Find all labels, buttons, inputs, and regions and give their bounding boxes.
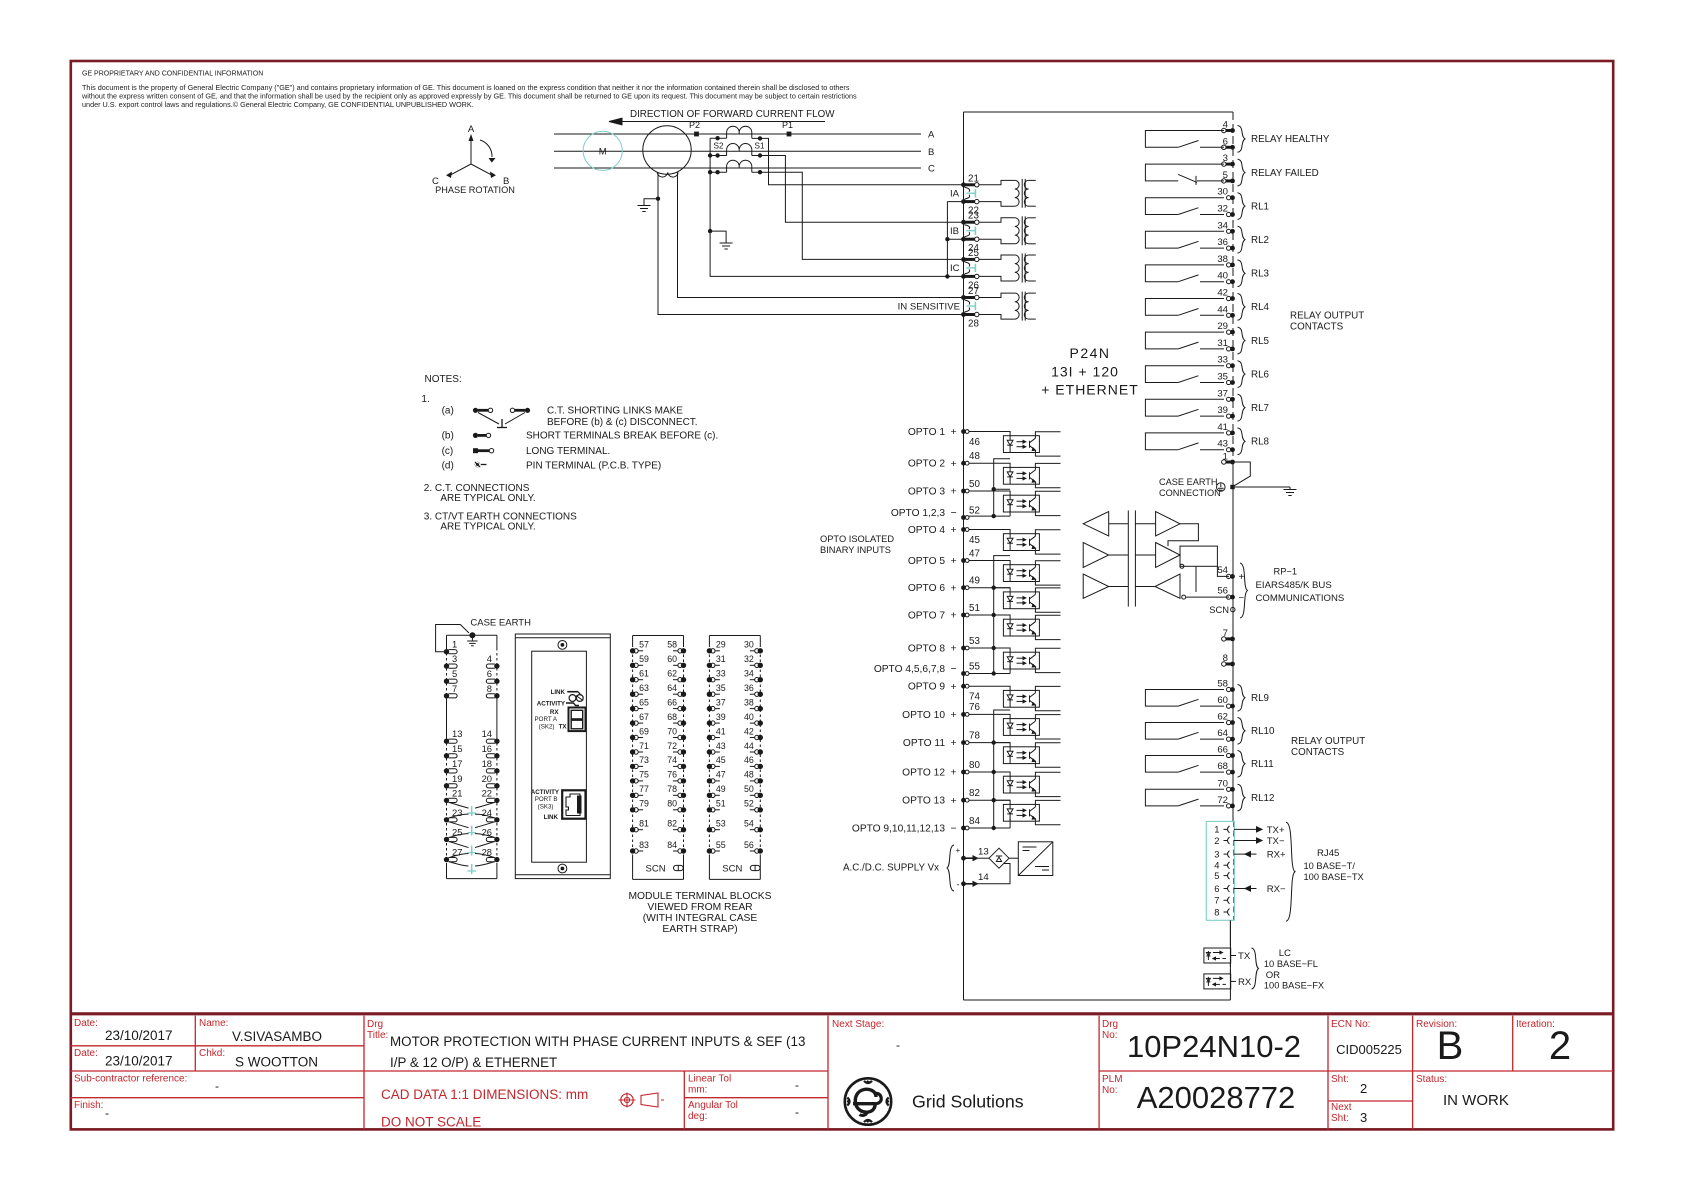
power supply unit (dc/dc) bbox=[1009, 857, 1018, 859]
svg-text:54: 54 bbox=[1217, 565, 1228, 576]
svg-text:3: 3 bbox=[1214, 848, 1219, 859]
svg-text:RL7: RL7 bbox=[1251, 403, 1269, 414]
wire opto group2 cathode bus to terminal 55 bbox=[994, 556, 1010, 674]
svg-text:2: 2 bbox=[1214, 835, 1219, 846]
svg-text:66: 66 bbox=[1217, 745, 1228, 756]
svg-text:Date:: Date: bbox=[74, 1048, 98, 1059]
RS485 driver logic box bbox=[1180, 546, 1217, 566]
svg-text:56: 56 bbox=[744, 840, 754, 850]
strip terminal 33 bbox=[707, 677, 712, 682]
svg-text:35: 35 bbox=[716, 683, 726, 693]
svg-text:5: 5 bbox=[1223, 170, 1228, 181]
terminal strip B outline bbox=[709, 635, 760, 637]
terminal 82 bbox=[961, 798, 966, 803]
CT phase C bbox=[727, 160, 752, 166]
block terminal 28 bbox=[494, 857, 499, 862]
svg-text:OPTO 8: OPTO 8 bbox=[908, 643, 946, 654]
terminal 78 bbox=[961, 740, 966, 745]
wire supply + to bridge bbox=[978, 857, 990, 859]
screw bottom bbox=[558, 864, 567, 873]
block terminal 14 bbox=[494, 739, 499, 744]
svg-text:62: 62 bbox=[1217, 712, 1228, 723]
svg-text:75: 75 bbox=[639, 770, 649, 780]
svg-text:49: 49 bbox=[969, 576, 980, 587]
svg-text:I/P & 12 O/P) & ETHERNET: I/P & 12 O/P) & ETHERNET bbox=[390, 1055, 557, 1070]
relay contact RELAY HEALTHY bbox=[1145, 131, 1224, 148]
svg-text:55: 55 bbox=[969, 661, 980, 672]
relay contact RL8 bbox=[1145, 433, 1224, 450]
svg-text:20: 20 bbox=[482, 773, 492, 784]
title block top heavy line bbox=[70, 1012, 1615, 1015]
svg-text:21: 21 bbox=[968, 173, 979, 184]
svg-text:CID005225: CID005225 bbox=[1336, 1042, 1402, 1057]
svg-text:TX+: TX+ bbox=[1267, 825, 1285, 836]
svg-text:8: 8 bbox=[1223, 653, 1228, 664]
svg-text:Linear Tol: Linear Tol bbox=[688, 1074, 731, 1085]
optocoupler U8 (OPTO input 53) bbox=[1003, 652, 1039, 669]
svg-text:84: 84 bbox=[969, 816, 980, 827]
block terminal 21 bbox=[444, 798, 449, 803]
terminal 43 bbox=[1227, 448, 1231, 452]
wire CT S2 common bus bbox=[710, 138, 947, 276]
LC brace bbox=[1252, 948, 1259, 989]
terminal 40 bbox=[1227, 280, 1231, 284]
internal CT IC bbox=[979, 255, 1015, 259]
svg-text:+: + bbox=[951, 486, 957, 498]
svg-text:No:: No: bbox=[1102, 1030, 1118, 1041]
dashed link TX-RX bbox=[1229, 963, 1231, 974]
svg-text:(SK3): (SK3) bbox=[538, 804, 554, 811]
wire phase C S1 to terminal 25 bbox=[752, 172, 964, 259]
strip terminal 40 bbox=[758, 720, 763, 725]
svg-text:16: 16 bbox=[482, 743, 492, 754]
svg-text:Angular Tol: Angular Tol bbox=[688, 1100, 738, 1111]
svg-text:81: 81 bbox=[639, 819, 649, 829]
wire to terminal 54 bbox=[1217, 566, 1229, 576]
svg-text:42: 42 bbox=[744, 726, 754, 736]
svg-text:23/10/2017: 23/10/2017 bbox=[105, 1028, 173, 1043]
terminal 4 bbox=[1222, 128, 1226, 132]
svg-text:V.SIVASAMBO: V.SIVASAMBO bbox=[232, 1029, 322, 1044]
relay case top edge bbox=[964, 111, 1234, 113]
strip terminal 53 bbox=[707, 827, 712, 832]
block terminal 25 bbox=[444, 837, 449, 842]
svg-text:OPTO 1: OPTO 1 bbox=[908, 427, 946, 438]
CT shorting link IN bbox=[965, 300, 970, 305]
terminal 58 bbox=[1227, 687, 1231, 691]
svg-text:OPTO ISOLATED: OPTO ISOLATED bbox=[820, 534, 894, 544]
svg-text:61: 61 bbox=[639, 669, 649, 679]
svg-text:OPTO 11: OPTO 11 bbox=[903, 738, 945, 749]
svg-text:(c): (c) bbox=[442, 446, 454, 457]
svg-text:83: 83 bbox=[639, 840, 649, 850]
svg-text:Finish:: Finish: bbox=[74, 1100, 103, 1111]
strip terminal 42 bbox=[758, 735, 763, 740]
terminal 49 bbox=[961, 585, 966, 590]
svg-text:82: 82 bbox=[969, 788, 980, 799]
terminal 54 bbox=[1227, 574, 1231, 578]
svg-text:77: 77 bbox=[639, 784, 649, 794]
svg-text:Chkd:: Chkd: bbox=[199, 1048, 225, 1059]
strip terminal 44 bbox=[758, 749, 763, 754]
svg-text:A: A bbox=[468, 124, 475, 135]
svg-text:CONNECTION: CONNECTION bbox=[1159, 488, 1221, 498]
svg-text:-: - bbox=[795, 1078, 799, 1092]
svg-text:74: 74 bbox=[969, 692, 980, 703]
svg-text:BEFORE (b) & (c) DISCONNECT.: BEFORE (b) & (c) DISCONNECT. bbox=[547, 417, 698, 428]
direction arrow bbox=[609, 121, 825, 123]
svg-text:LINK: LINK bbox=[551, 689, 566, 696]
core-balance CT (toroid) bbox=[643, 126, 691, 174]
svg-text:56: 56 bbox=[1217, 586, 1228, 597]
terminal 51 bbox=[961, 613, 966, 618]
supply brace bbox=[947, 845, 954, 891]
strip terminal 37 bbox=[707, 706, 712, 711]
svg-text:−: − bbox=[951, 663, 957, 675]
strip terminal 69 bbox=[630, 735, 635, 740]
svg-text:B: B bbox=[1437, 1024, 1464, 1068]
svg-text:LONG TERMINAL.: LONG TERMINAL. bbox=[526, 446, 610, 457]
svg-text:36: 36 bbox=[1217, 237, 1228, 248]
block terminal 16 bbox=[494, 753, 499, 758]
strip terminal 71 bbox=[630, 749, 635, 754]
strip terminal 59 bbox=[630, 663, 635, 668]
wire to terminal 22 bbox=[947, 201, 963, 203]
wire phase B bbox=[554, 150, 921, 152]
svg-text:TX: TX bbox=[1238, 951, 1251, 962]
terminal 37 bbox=[1227, 397, 1231, 401]
svg-text:OPTO 4,5,6,7,8: OPTO 4,5,6,7,8 bbox=[874, 664, 945, 675]
svg-text:66: 66 bbox=[667, 697, 677, 707]
svg-text:52: 52 bbox=[744, 799, 754, 809]
svg-text:+: + bbox=[951, 524, 957, 536]
svg-text:deg:: deg: bbox=[688, 1111, 707, 1122]
svg-text:VIEWED FROM REAR: VIEWED FROM REAR bbox=[647, 902, 752, 913]
svg-text:100 BASE−TX: 100 BASE−TX bbox=[1304, 872, 1364, 882]
CT phase A bbox=[727, 126, 752, 132]
terminal 56 bbox=[1227, 595, 1231, 599]
svg-text:6: 6 bbox=[1223, 136, 1228, 147]
optocoupler U10 (OPTO input 76) bbox=[1003, 719, 1039, 736]
strip terminal 51 bbox=[707, 807, 712, 812]
strip terminal 43 bbox=[707, 749, 712, 754]
svg-text:32: 32 bbox=[744, 654, 754, 664]
svg-text:50: 50 bbox=[744, 784, 754, 794]
terminal 68 bbox=[1227, 770, 1231, 774]
case earth stud + ground bbox=[469, 632, 475, 638]
svg-text:Name:: Name: bbox=[199, 1018, 228, 1029]
RJ45 connector outline (teal) bbox=[1206, 821, 1234, 920]
svg-text:73: 73 bbox=[639, 755, 649, 765]
svg-text:27: 27 bbox=[968, 286, 979, 297]
svg-text:37: 37 bbox=[1217, 388, 1228, 399]
svg-text:22: 22 bbox=[482, 787, 492, 798]
svg-text:RX+: RX+ bbox=[1267, 850, 1286, 861]
wire opto group1 cathode bus to terminal 52 bbox=[994, 459, 1010, 516]
svg-text:15: 15 bbox=[452, 743, 462, 754]
wire phase B S1 to terminal 23 bbox=[752, 156, 964, 223]
terminal 24 bbox=[961, 237, 966, 242]
svg-text:BINARY INPUTS: BINARY INPUTS bbox=[820, 545, 891, 555]
terminal P1 bbox=[787, 132, 792, 137]
svg-text:63: 63 bbox=[639, 683, 649, 693]
optocoupler U1 (OPTO input 46) bbox=[1003, 436, 1039, 453]
svg-text:+: + bbox=[951, 555, 957, 567]
svg-text:IN WORK: IN WORK bbox=[1443, 1092, 1509, 1109]
svg-text:55: 55 bbox=[716, 840, 726, 850]
svg-text:13: 13 bbox=[978, 847, 989, 858]
svg-text:36: 36 bbox=[744, 683, 754, 693]
svg-text:3: 3 bbox=[452, 653, 457, 664]
internal CT IA bbox=[979, 180, 1015, 184]
svg-text:PORT B: PORT B bbox=[535, 796, 558, 803]
svg-text:82: 82 bbox=[667, 819, 677, 829]
svg-text:45: 45 bbox=[969, 535, 980, 546]
svg-text:Title:: Title: bbox=[367, 1030, 388, 1041]
svg-text:RX: RX bbox=[1238, 977, 1252, 988]
svg-text:GE PROPRIETARY AND CONFIDENTIA: GE PROPRIETARY AND CONFIDENTIAL INFORMAT… bbox=[82, 71, 263, 78]
relay contact RL6 bbox=[1145, 366, 1224, 383]
svg-text:RELAY OUTPUT: RELAY OUTPUT bbox=[1290, 311, 1364, 322]
svg-text:S2: S2 bbox=[714, 142, 724, 151]
wire phase C bbox=[554, 167, 921, 169]
svg-text:8: 8 bbox=[487, 683, 492, 694]
svg-text:23: 23 bbox=[968, 211, 979, 222]
svg-text:39: 39 bbox=[716, 712, 726, 722]
svg-text:A.C./D.C. SUPPLY Vx: A.C./D.C. SUPPLY Vx bbox=[843, 863, 939, 874]
RJ45 signal RX+ bbox=[1234, 853, 1257, 855]
svg-text:39: 39 bbox=[1217, 405, 1228, 416]
svg-text:ARE TYPICAL ONLY.: ARE TYPICAL ONLY. bbox=[440, 522, 535, 533]
svg-text:No:: No: bbox=[1102, 1085, 1118, 1096]
svg-text:MOTOR PROTECTION WITH PHASE CU: MOTOR PROTECTION WITH PHASE CURRENT INPU… bbox=[390, 1034, 805, 1049]
svg-text:31: 31 bbox=[716, 654, 726, 664]
svg-text:44: 44 bbox=[744, 741, 754, 751]
svg-text:+: + bbox=[1239, 572, 1245, 583]
svg-text:+: + bbox=[951, 643, 957, 655]
CT shorting link IA bbox=[965, 187, 970, 191]
strip terminal 83 bbox=[630, 848, 635, 853]
svg-text:RL1: RL1 bbox=[1251, 201, 1269, 212]
svg-text:23/10/2017: 23/10/2017 bbox=[105, 1054, 173, 1069]
terminal 84 bbox=[961, 826, 966, 831]
ground G3 (case earth) bbox=[1289, 487, 1291, 490]
terminal 66 bbox=[1227, 753, 1231, 757]
svg-text:78: 78 bbox=[969, 730, 980, 741]
wire toroid secondary left to terminal 28 bbox=[658, 173, 964, 315]
block terminal 13 bbox=[444, 739, 449, 744]
svg-text:ACTIVITY: ACTIVITY bbox=[531, 789, 560, 796]
svg-text:6: 6 bbox=[487, 668, 492, 679]
strip terminal 62 bbox=[681, 677, 686, 682]
terminal 46 bbox=[961, 429, 966, 434]
svg-text:Next: Next bbox=[1331, 1102, 1352, 1113]
block terminal 6 bbox=[494, 679, 499, 684]
svg-text:5: 5 bbox=[452, 668, 457, 679]
svg-text:37: 37 bbox=[716, 697, 726, 707]
terminal 26 bbox=[961, 274, 966, 279]
strip terminal 65 bbox=[630, 706, 635, 711]
strip terminal 58 bbox=[681, 648, 686, 653]
svg-text:RX−: RX− bbox=[1267, 884, 1286, 895]
svg-text:A: A bbox=[928, 130, 935, 141]
ground G1 (toroid earth) bbox=[656, 197, 660, 201]
svg-text:34: 34 bbox=[1217, 220, 1228, 231]
svg-text:6: 6 bbox=[1214, 883, 1219, 894]
optocoupler U2 (OPTO input 48) bbox=[1003, 467, 1039, 484]
svg-text:76: 76 bbox=[969, 702, 980, 713]
screw top bbox=[558, 641, 567, 650]
strip terminal 57 bbox=[630, 648, 635, 653]
svg-text:+: + bbox=[951, 458, 957, 470]
svg-text:+: + bbox=[951, 767, 957, 779]
svg-text:-: - bbox=[896, 1038, 900, 1052]
terminal 38 bbox=[1227, 263, 1231, 267]
terminal 45 bbox=[961, 527, 966, 532]
svg-text:COMMUNICATIONS: COMMUNICATIONS bbox=[1256, 593, 1345, 604]
strip terminal 32 bbox=[758, 663, 763, 668]
terminal 50 bbox=[961, 489, 966, 494]
svg-text:CONTACTS: CONTACTS bbox=[1291, 747, 1345, 758]
svg-text:18: 18 bbox=[482, 758, 492, 769]
svg-text:53: 53 bbox=[716, 819, 726, 829]
block CT shorting links bbox=[471, 806, 473, 816]
svg-text:3: 3 bbox=[1360, 1110, 1367, 1125]
svg-text:72: 72 bbox=[667, 741, 677, 751]
svg-text:60: 60 bbox=[667, 654, 677, 664]
case earth connection symbol bbox=[1217, 483, 1226, 492]
svg-text:LC: LC bbox=[1279, 948, 1291, 959]
svg-text:(WITH INTEGRAL CASE: (WITH INTEGRAL CASE bbox=[643, 913, 758, 924]
strip terminal 72 bbox=[681, 749, 686, 754]
block terminal 5 bbox=[444, 679, 449, 684]
svg-text:MODULE TERMINAL BLOCKS: MODULE TERMINAL BLOCKS bbox=[628, 891, 771, 902]
internal CT IB bbox=[979, 218, 1015, 222]
svg-text:CAD DATA 1:1 DIMENSIONS: mm: CAD DATA 1:1 DIMENSIONS: mm bbox=[381, 1087, 588, 1102]
relay contact RL11 bbox=[1145, 756, 1224, 773]
strip terminal 41 bbox=[707, 735, 712, 740]
rotation direction arc bbox=[480, 140, 492, 157]
svg-text:7: 7 bbox=[452, 683, 457, 694]
svg-text:3: 3 bbox=[1223, 153, 1228, 164]
RJ45 brace bbox=[1286, 822, 1295, 921]
svg-text:EIARS485/K BUS: EIARS485/K BUS bbox=[1256, 580, 1332, 591]
svg-text:OPTO 13: OPTO 13 bbox=[902, 796, 945, 807]
RS485 driver buffer left 2 bbox=[1083, 543, 1109, 568]
optocoupler U6 (OPTO input 49) bbox=[1003, 592, 1039, 609]
wire to terminal 56 bbox=[1182, 595, 1186, 599]
svg-text:SCN: SCN bbox=[722, 864, 742, 875]
svg-text:79: 79 bbox=[639, 799, 649, 809]
svg-text:OPTO 6: OPTO 6 bbox=[908, 583, 946, 594]
svg-text:CASE EARTH: CASE EARTH bbox=[470, 618, 531, 629]
terminal 53 bbox=[961, 646, 966, 651]
svg-text:76: 76 bbox=[667, 770, 677, 780]
terminal 72 bbox=[1227, 804, 1231, 808]
block terminal 24 bbox=[494, 817, 499, 822]
comms module inner plate bbox=[532, 651, 587, 862]
optocoupler U7 (OPTO input 51) bbox=[1003, 619, 1039, 636]
svg-text:PHASE ROTATION: PHASE ROTATION bbox=[435, 185, 515, 195]
terminal 25 bbox=[961, 257, 966, 262]
svg-text:Sht:: Sht: bbox=[1331, 1113, 1349, 1124]
block terminal 26 bbox=[494, 837, 499, 842]
terminal 80 bbox=[961, 770, 966, 775]
svg-text:RL12: RL12 bbox=[1251, 793, 1274, 804]
terminal 42 bbox=[1227, 296, 1231, 300]
relay contact RL7 bbox=[1145, 399, 1224, 416]
terminal 31 bbox=[1227, 347, 1231, 351]
relay contact RL10 bbox=[1145, 723, 1224, 740]
svg-text:33: 33 bbox=[716, 669, 726, 679]
terminal 48 bbox=[961, 461, 966, 466]
strip terminal 63 bbox=[630, 692, 635, 697]
svg-text:69: 69 bbox=[639, 726, 649, 736]
svg-text:EARTH STRAP): EARTH STRAP) bbox=[662, 924, 737, 935]
svg-text:C: C bbox=[928, 164, 935, 175]
svg-text:60: 60 bbox=[1217, 695, 1228, 706]
svg-text:Date:: Date: bbox=[74, 1018, 98, 1029]
svg-text:+: + bbox=[956, 846, 961, 855]
strip terminal 82 bbox=[681, 827, 686, 832]
terminal 6 bbox=[1222, 145, 1226, 149]
svg-text:40: 40 bbox=[1217, 271, 1228, 282]
strip terminal 50 bbox=[758, 793, 763, 798]
svg-text:46: 46 bbox=[744, 755, 754, 765]
svg-text:4: 4 bbox=[487, 653, 492, 664]
block terminal 4 bbox=[494, 663, 499, 668]
strip terminal 39 bbox=[707, 720, 712, 725]
svg-text:SHORT TERMINALS BREAK BEFORE (: SHORT TERMINALS BREAK BEFORE (c). bbox=[526, 431, 718, 442]
svg-text:Sub-contractor reference:: Sub-contractor reference: bbox=[74, 1074, 187, 1085]
svg-text:B: B bbox=[928, 147, 934, 158]
svg-text:RL11: RL11 bbox=[1251, 759, 1274, 770]
svg-text:68: 68 bbox=[667, 712, 677, 722]
svg-text:(d): (d) bbox=[442, 461, 454, 472]
svg-text:45: 45 bbox=[716, 755, 726, 765]
terminal 74 bbox=[961, 684, 966, 689]
svg-text:Next Stage:: Next Stage: bbox=[832, 1019, 884, 1030]
svg-text:13: 13 bbox=[452, 728, 462, 739]
block terminal 15 bbox=[444, 753, 449, 758]
comms module outline bbox=[515, 634, 610, 879]
relay contact RELAY FAILED bbox=[1145, 164, 1224, 181]
svg-text:1: 1 bbox=[452, 639, 457, 650]
svg-text:P1: P1 bbox=[782, 120, 793, 130]
wire phase A S1 to terminal 21 bbox=[752, 138, 964, 184]
svg-text:RL8: RL8 bbox=[1251, 437, 1270, 448]
terminal 36 bbox=[1227, 246, 1231, 250]
svg-text:+: + bbox=[951, 582, 957, 594]
terminal 7 bbox=[1222, 637, 1226, 641]
strip terminal 76 bbox=[681, 778, 686, 783]
strip terminal 48 bbox=[758, 778, 763, 783]
svg-text:ARE TYPICAL ONLY.: ARE TYPICAL ONLY. bbox=[440, 493, 535, 504]
svg-text:10 BASE−FL: 10 BASE−FL bbox=[1264, 959, 1318, 969]
svg-text:RL3: RL3 bbox=[1251, 269, 1270, 280]
svg-text:OPTO 2: OPTO 2 bbox=[908, 459, 946, 470]
strip terminal 47 bbox=[707, 778, 712, 783]
terminal 28 bbox=[961, 312, 966, 317]
block terminal 22 bbox=[494, 798, 499, 803]
svg-text:57: 57 bbox=[639, 640, 649, 650]
svg-text:71: 71 bbox=[639, 741, 649, 751]
svg-text:32: 32 bbox=[1217, 204, 1228, 215]
terminal 55 bbox=[961, 671, 966, 676]
svg-text:OPTO 9: OPTO 9 bbox=[908, 682, 946, 693]
internal CT IN bbox=[979, 293, 1015, 297]
svg-text:+: + bbox=[951, 709, 957, 721]
